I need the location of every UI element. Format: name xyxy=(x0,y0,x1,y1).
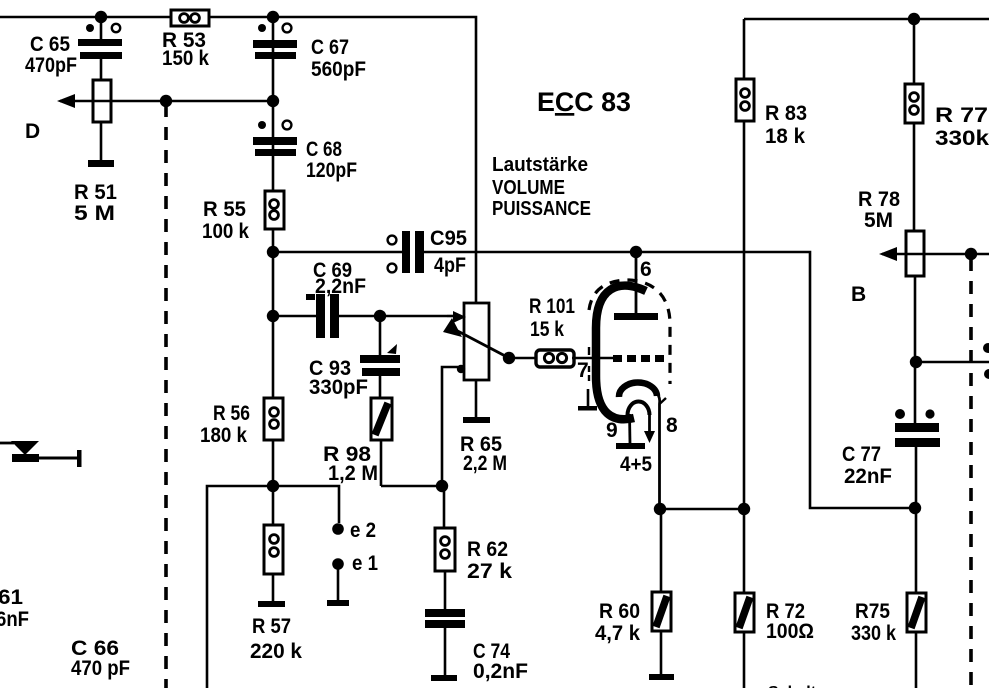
svg-text:220 k: 220 k xyxy=(250,640,302,663)
wire ground rail left segment xyxy=(207,486,339,688)
svg-text:C 67: C 67 xyxy=(311,36,349,59)
svg-text:R 57: R 57 xyxy=(252,615,291,638)
svg-text:470 pF: 470 pF xyxy=(71,657,130,680)
svg-text:100 k: 100 k xyxy=(202,220,249,243)
node junction top-left xyxy=(95,11,107,23)
svg-text:R 77: R 77 xyxy=(935,104,988,127)
node junction cathode xyxy=(654,503,666,515)
wire top-right rail xyxy=(744,19,989,509)
svg-text:15 k: 15 k xyxy=(530,318,564,341)
label ECC 83 xyxy=(537,87,631,117)
node junction C67 top xyxy=(267,11,279,23)
capacitor C93 xyxy=(309,316,400,399)
svg-text:R75: R75 xyxy=(855,600,890,623)
svg-text:61: 61 xyxy=(0,586,23,609)
wire R65 bottom-left link xyxy=(442,367,464,486)
svg-text:Schalter: Schalter xyxy=(768,684,831,688)
svg-text:B: B xyxy=(851,283,866,306)
svg-text:R 60: R 60 xyxy=(599,600,640,623)
right edge cut component xyxy=(983,343,989,379)
node junction R56/R57 xyxy=(267,480,279,492)
wire grid lead xyxy=(572,357,614,360)
svg-text:R 56: R 56 xyxy=(213,402,250,425)
label Lautstaerke VOLUME PUISSANCE xyxy=(492,154,591,220)
capacitor C95 xyxy=(388,227,468,277)
node junction C77 top xyxy=(910,356,922,368)
tube ECC83 envelope solid arc xyxy=(596,286,646,420)
svg-text:e 1: e 1 xyxy=(352,552,378,575)
svg-text:330pF: 330pF xyxy=(309,376,368,399)
diode left edge xyxy=(0,441,82,467)
wire dashed vertical left xyxy=(164,104,168,688)
svg-text:R 62: R 62 xyxy=(467,538,508,561)
capacitor C69 xyxy=(306,259,366,338)
capacitor C74 xyxy=(425,571,528,683)
svg-text:560pF: 560pF xyxy=(311,58,366,81)
wire R77 chain xyxy=(914,19,915,423)
svg-text:4pF: 4pF xyxy=(434,254,466,277)
svg-text:PUISSANCE: PUISSANCE xyxy=(492,198,591,220)
pin 9 label xyxy=(606,419,618,442)
potentiometer R51 xyxy=(74,80,117,225)
svg-text:8: 8 xyxy=(666,414,678,437)
wire cathode rail xyxy=(660,508,744,511)
bottom edge cut text xyxy=(768,684,831,688)
svg-text:Lautstärke: Lautstärke xyxy=(492,154,588,176)
tube anode xyxy=(614,252,658,320)
wire wiper to R101 xyxy=(509,357,537,360)
resistor R53 xyxy=(162,10,209,70)
tube cathode xyxy=(619,382,666,509)
node junction right dashed top xyxy=(965,248,977,260)
tube grid dashes xyxy=(613,355,664,362)
svg-text:4,7 k: 4,7 k xyxy=(595,622,640,645)
tube ECC83 envelope dashed xyxy=(589,280,670,384)
svg-text:6nF: 6nF xyxy=(0,608,29,631)
wire C69 branch y316 xyxy=(273,315,447,318)
capacitor C67 xyxy=(253,24,366,81)
svg-text:100Ω: 100Ω xyxy=(766,620,814,643)
potentiometer R78 xyxy=(858,188,924,276)
wire top-left rail xyxy=(0,17,476,304)
svg-text:6: 6 xyxy=(640,258,652,281)
pin 8 label xyxy=(666,414,678,437)
node junction R55 bottom xyxy=(267,246,279,258)
node junction dashed-line top xyxy=(160,95,172,107)
terminal e1 xyxy=(327,552,378,606)
resistor R62 xyxy=(435,486,512,583)
svg-text:D: D xyxy=(25,120,40,143)
svg-text:R 101: R 101 xyxy=(529,295,575,318)
svg-text:330k: 330k xyxy=(935,127,989,150)
terminal e2 xyxy=(332,519,376,542)
svg-text:150 k: 150 k xyxy=(162,47,209,70)
svg-text:1,2 M: 1,2 M xyxy=(328,462,378,485)
wire dashed vertical right xyxy=(969,258,973,688)
pin 4+5 label xyxy=(620,453,652,476)
node junction R72 xyxy=(738,503,750,515)
resistor R60 xyxy=(595,509,674,680)
svg-text:5 M: 5 M xyxy=(74,202,115,225)
resistor R72 xyxy=(735,509,814,688)
svg-text:C 68: C 68 xyxy=(306,138,342,161)
wire R65 wiper diagonal xyxy=(443,311,509,373)
svg-text:330 k: 330 k xyxy=(851,622,896,645)
wire R78 wiper to B xyxy=(879,247,989,261)
svg-text:C 65: C 65 xyxy=(30,33,70,56)
svg-text:120pF: 120pF xyxy=(306,159,357,182)
node junction anode xyxy=(630,246,642,258)
resistor R56 xyxy=(200,398,283,447)
capacitor C65 xyxy=(25,17,122,81)
node junction C77 bottom xyxy=(909,502,921,514)
svg-text:27 k: 27 k xyxy=(467,560,512,583)
wire R51 wiper to D xyxy=(57,94,273,108)
svg-text:0,2nF: 0,2nF xyxy=(473,660,528,683)
resistor R77 xyxy=(905,84,989,150)
node junction R77 top xyxy=(908,13,920,25)
svg-text:22nF: 22nF xyxy=(844,465,892,488)
tube heater xyxy=(616,402,655,450)
node B label xyxy=(851,283,866,306)
label C61 partial xyxy=(0,586,29,631)
resistor R101 xyxy=(529,295,575,367)
capacitor C68 xyxy=(253,121,357,182)
svg-text:e 2: e 2 xyxy=(350,519,376,542)
svg-text:2,2 M: 2,2 M xyxy=(463,452,507,475)
resistor R57 xyxy=(250,525,302,663)
svg-text:180 k: 180 k xyxy=(200,424,247,447)
node junction wiper xyxy=(503,352,515,364)
wire R98 bottom link xyxy=(381,485,442,488)
svg-text:C 77: C 77 xyxy=(842,443,881,466)
resistor R75 xyxy=(851,508,926,688)
wire C77 node to edge xyxy=(916,361,989,364)
svg-text:470pF: 470pF xyxy=(25,54,77,77)
svg-text:R 83: R 83 xyxy=(765,102,807,125)
svg-text:ECC 83: ECC 83 xyxy=(537,87,631,117)
node junction R62 top xyxy=(436,480,448,492)
resistor R55 xyxy=(202,191,284,243)
capacitor C77 xyxy=(842,409,940,508)
node junction C69 left xyxy=(267,310,279,322)
svg-text:R 78: R 78 xyxy=(858,188,900,211)
resistor R98 xyxy=(323,398,392,486)
node junction C67/C68 xyxy=(267,95,279,107)
svg-text:4+5: 4+5 xyxy=(620,453,652,476)
svg-text:VOLUME: VOLUME xyxy=(492,177,565,199)
pin 6 label xyxy=(640,258,652,281)
resistor R83 xyxy=(736,79,807,148)
svg-text:18 k: 18 k xyxy=(765,125,805,148)
potentiometer R65 xyxy=(460,303,507,475)
svg-text:R 55: R 55 xyxy=(203,198,246,221)
label C66 xyxy=(71,637,130,680)
svg-text:C95: C95 xyxy=(430,227,467,250)
node D label xyxy=(25,120,40,143)
terminal pin7 tick xyxy=(578,347,597,411)
wire vertical chain x274 xyxy=(272,17,275,601)
svg-text:7: 7 xyxy=(577,359,589,382)
pin 7 label xyxy=(577,359,589,382)
svg-text:5M: 5M xyxy=(864,209,893,232)
svg-text:R 51: R 51 xyxy=(74,181,117,204)
node junction C93 top xyxy=(374,310,386,322)
wire anode rail y252 xyxy=(273,252,916,508)
svg-text:9: 9 xyxy=(606,419,618,442)
svg-text:2,2nF: 2,2nF xyxy=(315,275,366,298)
